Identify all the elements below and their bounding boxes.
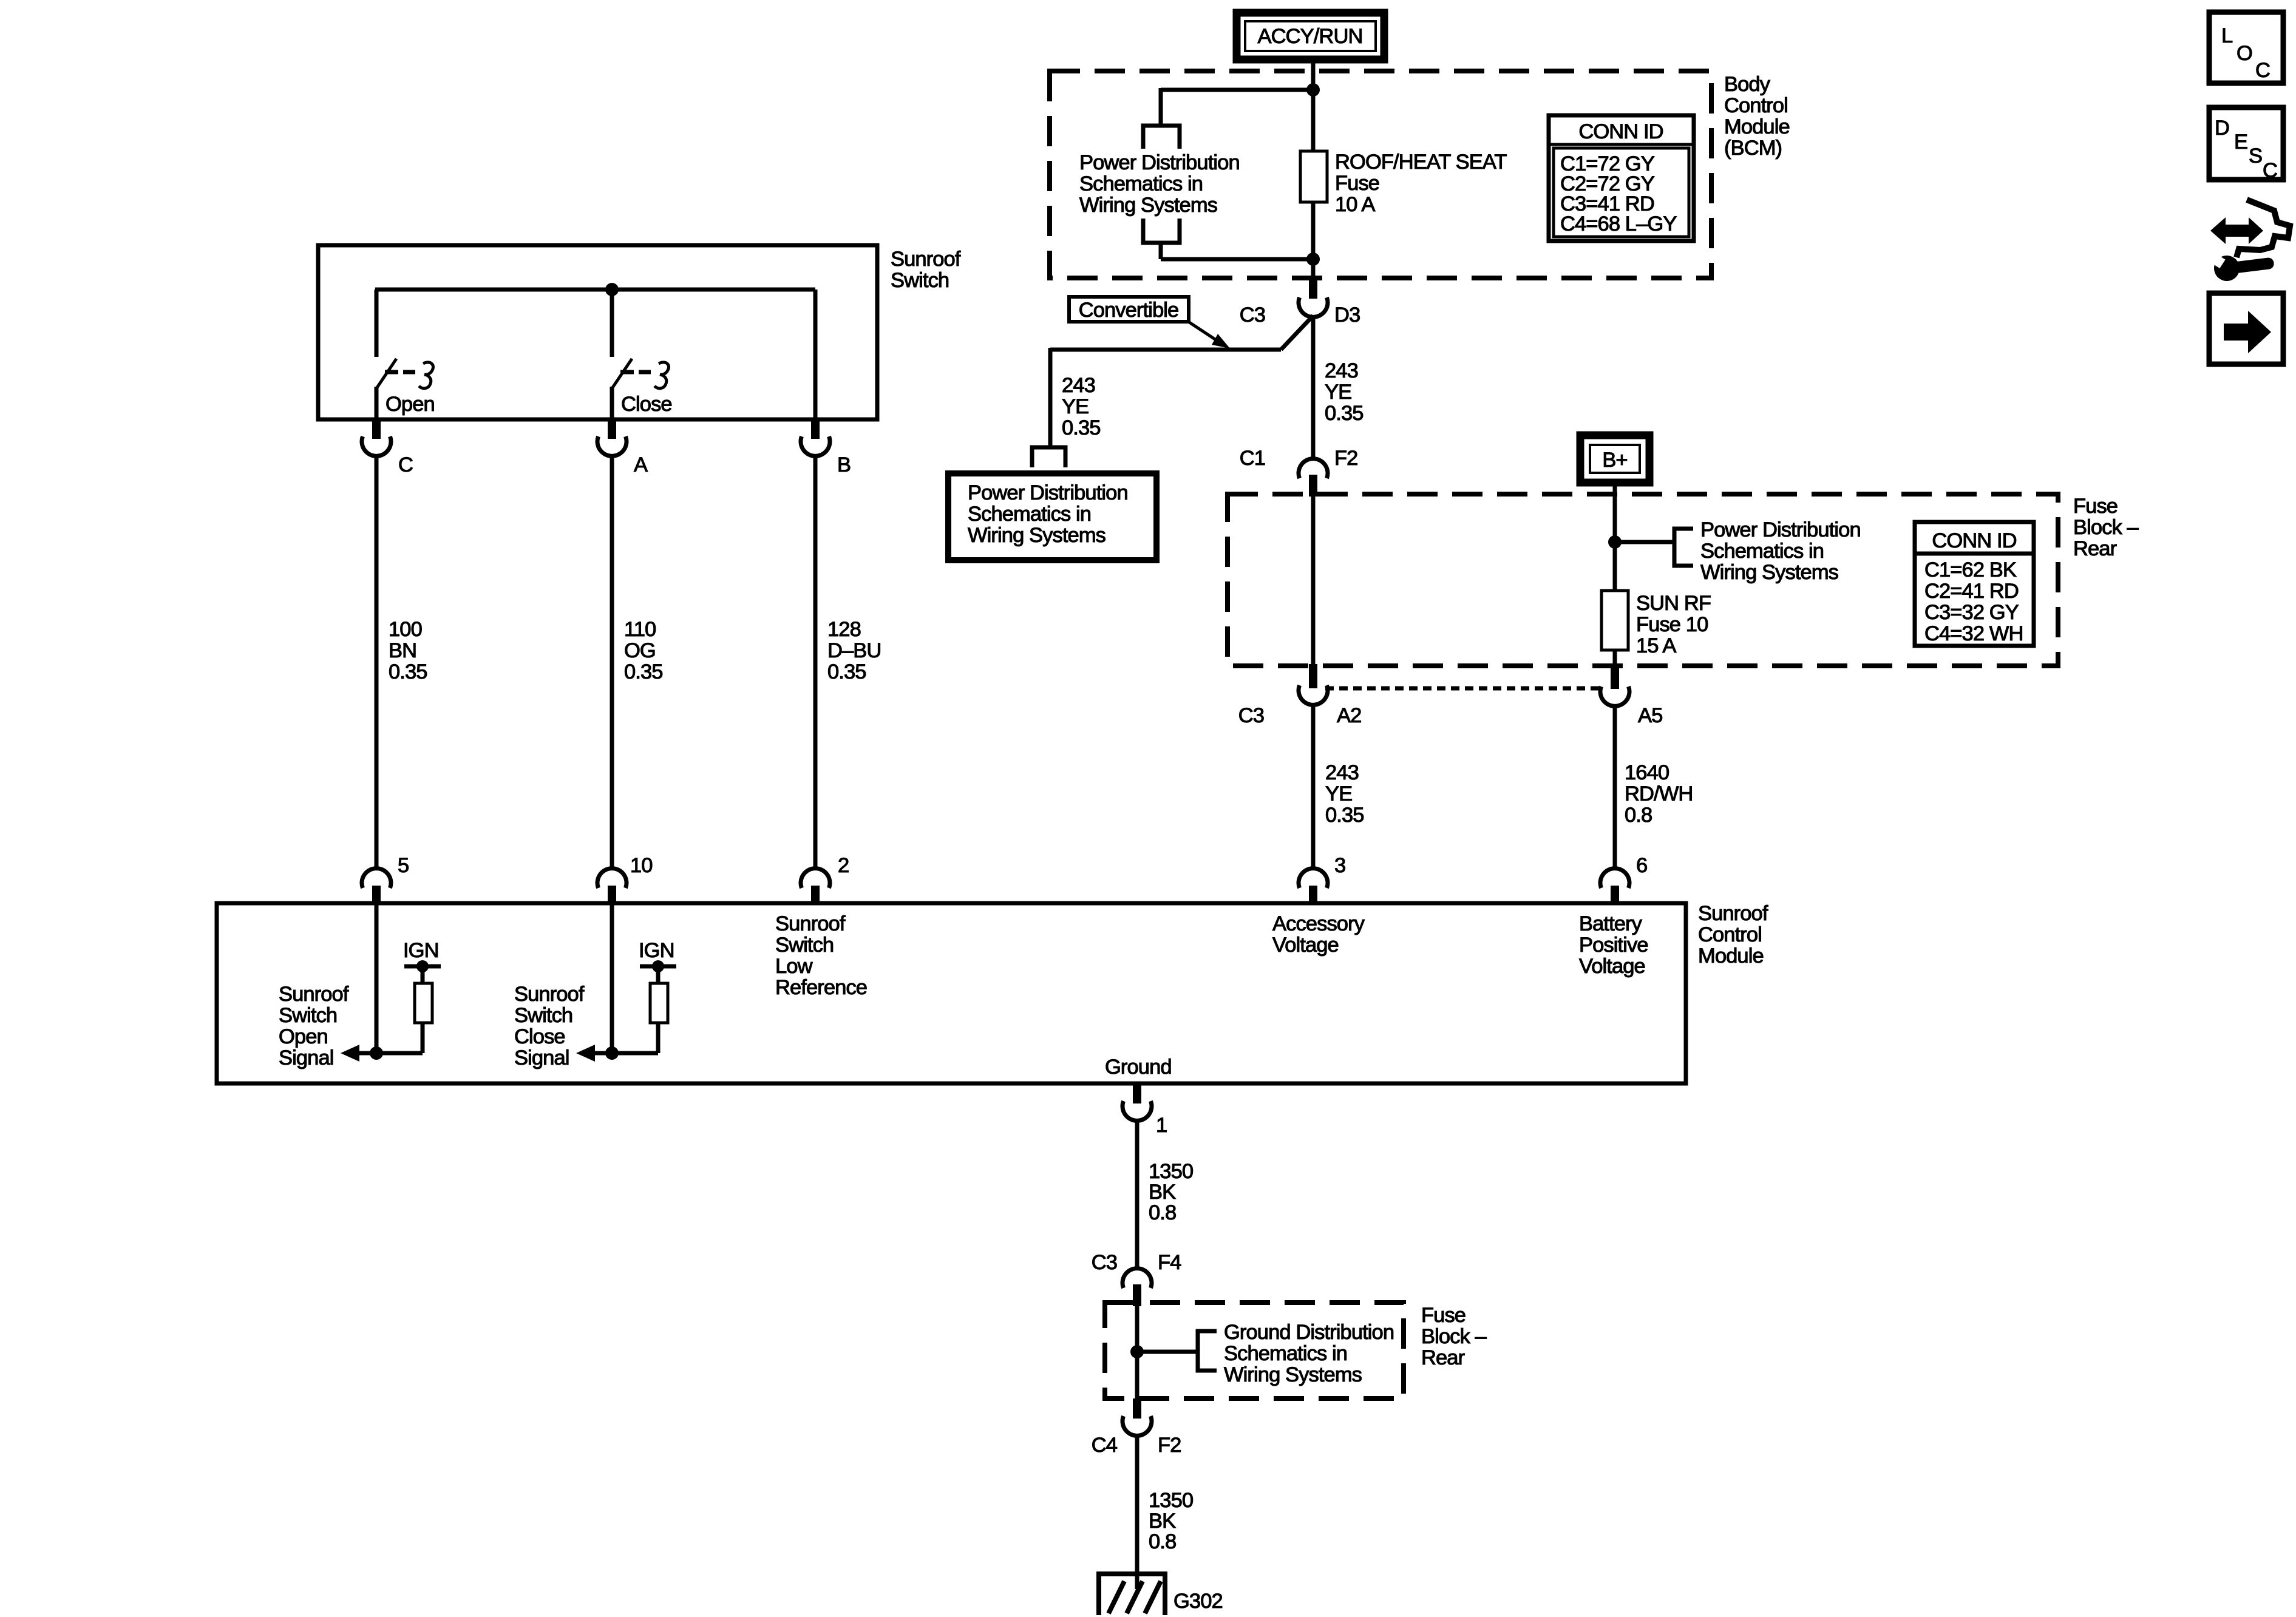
junction ground distribution (1130, 1345, 1144, 1358)
internal signal line open (341, 1023, 423, 1062)
label Close (621, 393, 672, 416)
svg-text:Signal: Signal (514, 1046, 569, 1070)
label SUN RF Fuse 10 15 A (1636, 592, 1711, 657)
svg-text:Sunroof: Sunroof (891, 248, 961, 271)
svg-text:C2=41 RD: C2=41 RD (1924, 580, 2019, 603)
label Open (385, 393, 435, 416)
module pin 5 connector arc (362, 869, 391, 888)
svg-text:D: D (2215, 117, 2229, 140)
reference text Power Distribution Schematics (fuse block) (1700, 518, 1861, 584)
CONN ID table (BCM) (1549, 115, 1694, 241)
svg-text:Switch: Switch (279, 1004, 337, 1027)
label wire 1350 BK 0.8 (upper) (1149, 1160, 1193, 1224)
svg-text:Ground: Ground (1105, 1056, 1172, 1079)
junction on B+ wire (1608, 535, 1622, 549)
svg-text:Sunroof: Sunroof (1698, 902, 1768, 925)
svg-text:Fuse: Fuse (1335, 172, 1379, 195)
label B (837, 453, 851, 476)
label pin 3 (1334, 854, 1345, 877)
svg-text:0.8: 0.8 (1625, 804, 1652, 827)
Fuse Block - Rear dashed box (1228, 494, 2058, 666)
reference text Power Distribution Schematics (BCM) (1079, 151, 1240, 217)
svg-text:Switch: Switch (891, 269, 949, 292)
svg-text:D3: D3 (1334, 303, 1360, 327)
module pin 3 stub (1309, 886, 1317, 904)
svg-text:1: 1 (1156, 1114, 1167, 1137)
svg-text:Power Distribution: Power Distribution (968, 481, 1128, 504)
arrow from Convertible callout (1189, 322, 1230, 348)
svg-text:Rear: Rear (1421, 1346, 1465, 1369)
connector A arc (597, 436, 627, 456)
svg-text:2: 2 (838, 854, 849, 877)
label Ground (1105, 1056, 1172, 1079)
svg-text:Wiring Systems: Wiring Systems (1079, 194, 1217, 217)
svg-text:C1=62 BK: C1=62 BK (1924, 558, 2017, 581)
wire ACCY/RUN feed into BCM (1311, 59, 1316, 151)
wire B+ into fuse block (1613, 483, 1617, 591)
wire accessory voltage through fuse block (1311, 495, 1316, 666)
label Accessory Voltage (1272, 912, 1365, 957)
label A5 (1638, 704, 1662, 727)
svg-text:0.35: 0.35 (1325, 804, 1364, 827)
label pin 10 (630, 854, 653, 877)
label C3 (A2 connector) (1238, 704, 1264, 727)
svg-text:BK: BK (1149, 1181, 1176, 1204)
bracket above reference box (convertible branch) (1032, 447, 1065, 467)
label wire 1640 RD/WH 0.8 (1625, 761, 1693, 827)
svg-text:243: 243 (1325, 359, 1358, 382)
svg-text:ACCY/RUN: ACCY/RUN (1258, 25, 1363, 48)
svg-text:C3: C3 (1240, 303, 1265, 327)
svg-text:YE: YE (1325, 381, 1351, 404)
wire diagonal branch (convertible take-off) (1050, 316, 1313, 447)
svg-text:C: C (2255, 59, 2270, 82)
label F2 (harness side) (1334, 447, 1357, 470)
svg-text:0.35: 0.35 (624, 660, 663, 683)
reference text Ground Distribution Schematics (1224, 1321, 1394, 1386)
connector C3/F4 pin stub (1133, 1284, 1141, 1306)
svg-text:Module: Module (1724, 115, 1790, 138)
svg-text:Voltage: Voltage (1579, 955, 1645, 978)
svg-text:Sunroof: Sunroof (775, 912, 846, 935)
svg-text:Positive: Positive (1579, 934, 1648, 957)
connector C pin stub (372, 419, 381, 439)
wire C4/F2 to ground G302 (1135, 1436, 1140, 1589)
connector C3/F4 arc (1123, 1269, 1152, 1288)
svg-text:0.35: 0.35 (1325, 402, 1364, 425)
wire pin 10 internal (610, 904, 614, 1053)
svg-text:C1: C1 (1240, 447, 1265, 470)
label Body Control Module (BCM) (1724, 73, 1790, 160)
wire fuse to BCM connector C3 (1311, 202, 1316, 278)
connector B arc (801, 436, 830, 456)
label C (398, 453, 413, 476)
connector A5 pin stub (1611, 664, 1619, 689)
svg-text:Power Distribution: Power Distribution (1700, 518, 1861, 541)
ground symbol G302 (1099, 1571, 1167, 1615)
module pin 10 stub (608, 886, 616, 904)
svg-text:100: 100 (389, 618, 422, 641)
svg-text:Control: Control (1698, 923, 1762, 946)
svg-text:Wiring Systems: Wiring Systems (968, 524, 1106, 547)
svg-text:Fuse: Fuse (1421, 1304, 1466, 1327)
svg-text:Wiring Systems: Wiring Systems (1700, 561, 1838, 584)
callout box Convertible (1069, 297, 1189, 322)
svg-text:Block –: Block – (1421, 1325, 1487, 1348)
Body Control Module (BCM) dashed box (1050, 71, 1711, 278)
label wire 243 YE 0.35 (convertible branch) (1062, 374, 1101, 439)
svg-text:Switch: Switch (514, 1004, 572, 1027)
svg-text:YE: YE (1062, 395, 1089, 418)
wire SUN RF fuse to connector A5 (1613, 650, 1617, 667)
svg-text:Power Distribution: Power Distribution (1079, 151, 1240, 174)
label pin 2 (838, 854, 849, 877)
wire connector A5 to module pin 6 (1613, 706, 1617, 869)
svg-text:IGN: IGN (639, 939, 674, 962)
switch Open contact (376, 359, 433, 419)
connector A5 arc (1600, 686, 1629, 706)
internal signal line close (576, 1023, 658, 1062)
svg-text:G302: G302 (1173, 1590, 1223, 1613)
svg-text:CONN ID: CONN ID (1932, 529, 2016, 552)
svg-text:C4=32 WH: C4=32 WH (1924, 622, 2023, 645)
svg-text:Accessory: Accessory (1272, 912, 1365, 935)
svg-text:C3: C3 (1092, 1251, 1117, 1274)
svg-text:5: 5 (398, 854, 409, 877)
connector C1/F2 pin stub (1309, 475, 1317, 497)
label pin 5 (398, 854, 409, 877)
label Sunroof Control Module (1698, 902, 1768, 968)
label A (634, 453, 648, 476)
module pin 1 connector arc (1123, 1101, 1152, 1120)
connector C3/A2 pin stub (1309, 664, 1317, 688)
svg-text:Wiring Systems: Wiring Systems (1224, 1363, 1362, 1386)
svg-text:15 A: 15 A (1636, 634, 1676, 657)
svg-text:L: L (2221, 24, 2233, 47)
svg-text:Close: Close (621, 393, 672, 416)
svg-text:C: C (2263, 159, 2277, 182)
svg-text:OG: OG (624, 639, 656, 662)
connector C3/D3 arc (1299, 297, 1328, 317)
svg-text:YE: YE (1325, 782, 1352, 805)
svg-text:F4: F4 (1158, 1251, 1181, 1274)
junction pin 5 signal node (370, 1046, 383, 1060)
svg-text:Block –: Block – (2073, 516, 2139, 539)
IGN rail open (403, 939, 441, 983)
label C4 (1092, 1434, 1118, 1457)
svg-text:Battery: Battery (1579, 912, 1643, 935)
svg-text:E: E (2234, 131, 2247, 154)
svg-text:110: 110 (624, 618, 656, 641)
module pin 6 stub (1611, 886, 1619, 904)
svg-text:Module: Module (1698, 944, 1764, 968)
label C1 (fuse block side) (1240, 447, 1265, 470)
bracket below reference text (BCM) (1143, 219, 1180, 243)
svg-text:A: A (634, 453, 648, 476)
label C3 (BCM side) (1240, 303, 1265, 327)
svg-text:A5: A5 (1638, 704, 1662, 727)
svg-text:(BCM): (BCM) (1724, 137, 1782, 160)
fuse ROOF/HEAT SEAT 10 A (1300, 151, 1327, 202)
module pin 2 stub (811, 886, 820, 904)
module pin 1 stub (1133, 1083, 1141, 1103)
label wire 243 YE 0.35 (to pin 3) (1325, 761, 1364, 827)
svg-text:0.8: 0.8 (1149, 1201, 1176, 1224)
svg-text:F2: F2 (1158, 1434, 1181, 1457)
label Sunroof Switch Close Signal (514, 983, 585, 1070)
svg-text:10 A: 10 A (1335, 193, 1375, 216)
svg-text:128: 128 (827, 618, 861, 641)
IGN rail close (639, 939, 676, 983)
Sunroof Switch box (318, 245, 877, 419)
svg-text:Rear: Rear (2073, 537, 2117, 560)
wire branch to power distribution reference (1161, 88, 1313, 126)
svg-text:Fuse: Fuse (2073, 495, 2118, 518)
label F2 (ground connector) (1158, 1434, 1181, 1457)
svg-text:Sunroof: Sunroof (514, 983, 585, 1006)
svg-text:Control: Control (1724, 94, 1788, 117)
svg-text:6: 6 (1636, 854, 1647, 877)
bracket for ground reference text (1198, 1331, 1217, 1371)
svg-text:Convertible: Convertible (1079, 299, 1179, 322)
resistor pull-up close (650, 983, 668, 1023)
wire switch common bus (375, 290, 815, 419)
svg-text:0.35: 0.35 (1062, 416, 1101, 439)
label Fuse Block - Rear (2073, 495, 2139, 560)
wire BCM C3/D3 to fuse block C1/F2 (1311, 317, 1316, 459)
module pin 5 stub (372, 886, 381, 904)
svg-text:Schematics in: Schematics in (968, 503, 1091, 526)
connector C4/F2 pin stub (1133, 1398, 1141, 1419)
svg-text:Open: Open (385, 393, 435, 416)
wire pin 5 internal (375, 904, 379, 1053)
wire pin 1 to fuse block C3/F4 (1135, 1120, 1140, 1269)
svg-text:Close: Close (514, 1025, 565, 1048)
connector C arc (362, 436, 391, 456)
module pin 2 connector arc (801, 869, 830, 888)
svg-text:SUN RF: SUN RF (1636, 592, 1711, 615)
svg-text:Ground Distribution: Ground Distribution (1224, 1321, 1394, 1344)
svg-text:1350: 1350 (1149, 1160, 1193, 1183)
svg-text:Schematics in: Schematics in (1224, 1342, 1347, 1365)
label Sunroof Switch Low Reference (775, 912, 867, 999)
svg-text:RD/WH: RD/WH (1625, 782, 1693, 805)
icon DESC button (2209, 107, 2283, 182)
connector C3/D3 pin stub (1309, 278, 1317, 299)
label ROOF/HEAT SEAT Fuse 10 A (1335, 151, 1507, 216)
label Sunroof Switch (891, 248, 961, 292)
module pin 10 connector arc (597, 869, 627, 888)
label F4 (1158, 1251, 1181, 1274)
svg-text:Switch: Switch (775, 934, 834, 957)
label wire 243 YE 0.35 (BCM to fuse block) (1325, 359, 1364, 425)
svg-text:Schematics in: Schematics in (1079, 172, 1203, 195)
reference box Power Distribution Schematics (convertible branch) (948, 473, 1156, 560)
svg-text:243: 243 (1062, 374, 1095, 397)
svg-text:F2: F2 (1334, 447, 1357, 470)
wire C to module pin 5 (375, 456, 379, 869)
svg-text:O: O (2237, 42, 2252, 65)
svg-text:Voltage: Voltage (1272, 934, 1339, 957)
label A2 (1337, 704, 1361, 727)
wire ground through fuse block (1135, 1305, 1140, 1398)
junction pin 10 signal node (605, 1046, 619, 1060)
svg-text:B+: B+ (1602, 449, 1627, 472)
fuse SUN RF 15 A (1601, 591, 1628, 650)
label Fuse Block - Rear (ground) (1421, 1304, 1487, 1369)
wire to ground distribution reference (1137, 1350, 1198, 1354)
junction on common bus (605, 283, 619, 296)
svg-text:D–BU: D–BU (827, 639, 881, 662)
svg-text:Signal: Signal (279, 1046, 334, 1070)
label wire 100 BN 0.35 (389, 618, 427, 683)
label G302 (1173, 1590, 1223, 1613)
power feed symbol ACCY/RUN (1237, 13, 1384, 59)
label wire 110 OG 0.35 (624, 618, 663, 683)
label wire 1350 BK 0.8 (lower) (1149, 1489, 1193, 1553)
svg-text:Schematics in: Schematics in (1700, 540, 1824, 563)
label wire 128 D-BU 0.35 (827, 618, 881, 683)
connector A pin stub (608, 419, 616, 439)
switch Close contact (612, 359, 669, 419)
wire from reference bracket to fuse output node (1161, 243, 1313, 259)
wire A to module pin 10 (610, 456, 614, 869)
svg-text:Low: Low (775, 955, 813, 978)
svg-text:IGN: IGN (403, 939, 439, 962)
svg-text:ROOF/HEAT SEAT: ROOF/HEAT SEAT (1335, 151, 1507, 174)
label D3 (harness side) (1334, 303, 1360, 327)
svg-text:Sunroof: Sunroof (279, 983, 349, 1006)
connector C3/A2 arc (1299, 685, 1328, 705)
label C3 (fuse block F4) (1092, 1251, 1117, 1274)
connector B pin stub (811, 419, 820, 439)
label Sunroof Switch Open Signal (279, 983, 349, 1070)
svg-text:C3: C3 (1238, 704, 1264, 727)
svg-text:243: 243 (1325, 761, 1359, 784)
svg-text:1350: 1350 (1149, 1489, 1193, 1512)
wire connector A2 to module pin 3 (1311, 705, 1316, 869)
svg-text:BN: BN (389, 639, 416, 662)
svg-text:Open: Open (279, 1025, 328, 1048)
svg-text:3: 3 (1334, 854, 1345, 877)
svg-text:10: 10 (630, 854, 653, 877)
Fuse Block - Rear ground distribution dashed box (1105, 1303, 1404, 1398)
svg-text:0.35: 0.35 (827, 660, 866, 683)
power feed symbol B+ (1580, 435, 1649, 483)
bracket above reference text (BCM) (1143, 126, 1180, 149)
svg-text:S: S (2249, 144, 2262, 168)
junction on ACCY/RUN wire (1306, 83, 1320, 97)
module pin 3 connector arc (1299, 869, 1328, 888)
svg-text:Fuse 10: Fuse 10 (1636, 613, 1708, 636)
dotted in-line connector plane (1325, 686, 1603, 691)
module pin 6 connector arc (1600, 869, 1629, 888)
CONN ID table (fuse block rear) (1915, 522, 2034, 646)
svg-text:0.8: 0.8 (1149, 1530, 1176, 1553)
svg-text:CONN ID: CONN ID (1578, 120, 1663, 143)
svg-text:0.35: 0.35 (389, 660, 427, 683)
bracket for reference text (fuse block) (1674, 529, 1693, 566)
junction below fuse (1306, 253, 1320, 266)
svg-text:C4: C4 (1092, 1434, 1118, 1457)
label pin 6 (1636, 854, 1647, 877)
connector C1/F2 arc (1299, 459, 1328, 478)
resistor pull-up open (415, 983, 432, 1023)
svg-text:A2: A2 (1337, 704, 1361, 727)
icon forward arrow button (2209, 293, 2283, 364)
label pin 1 (1156, 1114, 1167, 1137)
svg-text:C4=68 L–GY: C4=68 L–GY (1560, 212, 1677, 236)
connector C4/F2 arc (1123, 1416, 1152, 1436)
svg-text:B: B (837, 453, 851, 476)
wire to power distribution reference (fuse block) (1615, 540, 1674, 544)
svg-text:1640: 1640 (1625, 761, 1669, 784)
svg-text:BK: BK (1149, 1510, 1176, 1533)
svg-text:Body: Body (1724, 73, 1771, 96)
label Battery Positive Voltage (1579, 912, 1648, 978)
Sunroof Control Module box (217, 903, 1686, 1083)
svg-text:C3=32 GY: C3=32 GY (1924, 601, 2019, 624)
wire B to module pin 2 (813, 456, 818, 869)
icon vehicle service (car outline with arrow and wrench) (2207, 200, 2290, 283)
icon LOC button (2209, 12, 2283, 83)
svg-text:Reference: Reference (775, 976, 867, 999)
svg-text:C: C (398, 453, 413, 476)
